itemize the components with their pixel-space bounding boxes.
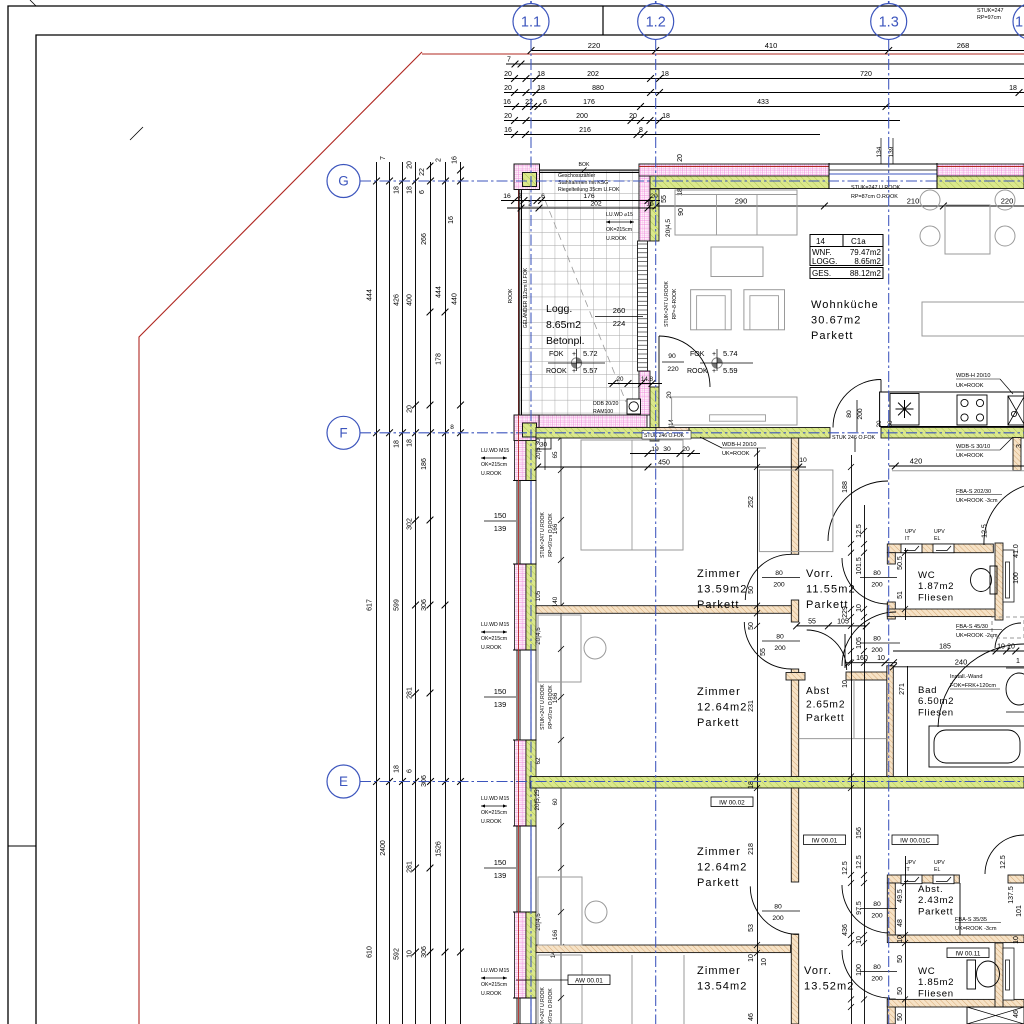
F wall green band west part (536, 428, 656, 439)
door vorr from wohnkueche right (828, 481, 888, 541)
svg-text:STUK=247: STUK=247 (977, 8, 1004, 14)
svg-text:20: 20 (677, 154, 684, 162)
svg-text:12.5: 12.5 (856, 855, 863, 869)
F wall tan block (656, 428, 689, 439)
svg-text:200: 200 (871, 647, 883, 654)
svg-text:20: 20 (650, 193, 658, 200)
WC shaft inset (1003, 550, 1014, 602)
svg-text:200: 200 (772, 915, 784, 922)
svg-text:5.74: 5.74 (723, 349, 738, 358)
svg-text:186: 186 (421, 458, 428, 470)
svg-text:Zimmer: Zimmer (697, 686, 741, 698)
north exterior wall insulation (639, 164, 829, 176)
armchair 2 (744, 290, 785, 330)
svg-text:OK=215cm: OK=215cm (481, 462, 507, 468)
svg-text:100: 100 (1013, 572, 1020, 584)
svg-text:10: 10 (897, 935, 904, 943)
svg-text:DDB 20/20: DDB 20/20 (593, 401, 618, 407)
svg-text:U.ROOK: U.ROOK (481, 471, 502, 477)
svg-text:Parkett: Parkett (806, 713, 845, 724)
svg-text:LU.WD ⌀15: LU.WD ⌀15 (606, 212, 633, 218)
svg-text:166: 166 (552, 692, 559, 703)
svg-text:55: 55 (760, 648, 767, 656)
svg-text:436: 436 (842, 924, 849, 936)
svg-text:53: 53 (748, 924, 755, 932)
svg-text:271: 271 (899, 683, 906, 695)
svg-text:220: 220 (588, 41, 601, 50)
svg-text:WDB-S 30/10: WDB-S 30/10 (956, 444, 990, 450)
svg-text:UK=ROOK -3cm: UK=ROOK -3cm (955, 926, 997, 932)
svg-text:46: 46 (748, 1013, 755, 1021)
stove (957, 395, 987, 425)
svg-text:11.55m2: 11.55m2 (806, 584, 856, 596)
svg-text:46: 46 (1013, 1010, 1020, 1018)
svg-text:156: 156 (856, 827, 863, 839)
wohnkueche door 80/200 rotated (856, 400, 858, 432)
svg-text:Vorr.: Vorr. (804, 965, 832, 977)
loggia east wall insulation upper (639, 164, 650, 241)
svg-text:Parkett: Parkett (811, 330, 854, 342)
svg-text:20: 20 (876, 420, 883, 428)
svg-text:13.52m2: 13.52m2 (804, 981, 855, 993)
svg-text:139: 139 (494, 871, 507, 880)
svg-text:55: 55 (661, 195, 668, 203)
svg-text:U.ROOK: U.ROOK (606, 236, 627, 242)
svg-text:8.65m2: 8.65m2 (854, 257, 881, 266)
left dimension chain columns (376, 162, 378, 1024)
svg-text:200: 200 (857, 408, 864, 420)
svg-text:14.8: 14.8 (641, 376, 654, 383)
svg-text:200: 200 (774, 645, 786, 652)
loggia dim rows (501, 200, 660, 202)
svg-text:6: 6 (541, 193, 545, 200)
svg-text:592: 592 (394, 948, 401, 960)
svg-text:444: 444 (436, 286, 443, 298)
svg-text:18: 18 (537, 85, 545, 92)
bathtub (929, 726, 1024, 767)
washbasin bad (1006, 673, 1024, 705)
svg-text:UPV: UPV (905, 529, 916, 535)
svg-text:F: F (339, 426, 347, 441)
svg-text:OK=215cm: OK=215cm (481, 636, 507, 642)
svg-text:12.5: 12.5 (842, 861, 849, 875)
svg-text:RP=97cm O.ROOK: RP=97cm O.ROOK (548, 988, 554, 1024)
svg-text:Parkett: Parkett (918, 906, 953, 917)
svg-text:IW 00.11: IW 00.11 (955, 950, 981, 957)
door zimmer1 (745, 554, 791, 600)
loggia tiled floor (520, 171, 639, 424)
svg-text:20: 20 (682, 446, 690, 453)
title strip divider (602, 6, 604, 35)
F wall green band east part (881, 428, 1024, 439)
svg-text:Betonpl.: Betonpl. (546, 335, 585, 347)
svg-text:50: 50 (748, 586, 755, 594)
svg-text:150: 150 (494, 687, 507, 696)
loggia east wall green strip lower (650, 387, 659, 441)
svg-text:GES.: GES. (812, 269, 831, 278)
svg-text:RP=87cm O.ROOK: RP=87cm O.ROOK (851, 194, 898, 200)
svg-text:268: 268 (957, 41, 970, 50)
svg-text:2.43m2: 2.43m2 (918, 895, 954, 906)
door right unit above abst2 (985, 835, 1024, 874)
svg-text:290: 290 (735, 197, 748, 206)
svg-text:GELÄNDER 112cm U.FOK: GELÄNDER 112cm U.FOK (522, 267, 529, 328)
svg-text:FBA-S 35/35: FBA-S 35/35 (955, 917, 987, 923)
svg-text:10: 10 (407, 950, 414, 958)
svg-text:178: 178 (436, 353, 443, 365)
svg-text:LU.WD M15: LU.WD M15 (481, 968, 509, 974)
svg-text:22: 22 (525, 99, 533, 106)
svg-text:10: 10 (997, 644, 1005, 651)
svg-text:50: 50 (748, 622, 755, 630)
area table (810, 235, 883, 247)
svg-text:6: 6 (407, 769, 414, 773)
svg-text:200: 200 (871, 913, 883, 920)
svg-text:166: 166 (552, 929, 559, 940)
svg-text:88.12m2: 88.12m2 (850, 269, 882, 278)
row 19.30/20 (630, 453, 700, 455)
svg-text:Abst: Abst (806, 686, 830, 697)
fold mark (8, 845, 36, 847)
svg-text:Zimmer: Zimmer (697, 965, 741, 977)
svg-text:80: 80 (776, 634, 784, 641)
svg-text:10: 10 (799, 457, 807, 464)
svg-text:1: 1 (1015, 15, 1023, 31)
svg-text:16: 16 (452, 156, 459, 164)
svg-text:WNF.: WNF. (812, 248, 832, 257)
svg-text:EL: EL (934, 867, 940, 873)
svg-text:200: 200 (576, 113, 588, 120)
svg-text:306: 306 (421, 946, 428, 958)
svg-text:18: 18 (407, 186, 414, 194)
svg-text:2400: 2400 (380, 840, 387, 856)
svg-text:20: 20 (407, 161, 414, 169)
svg-text:U.ROOK: U.ROOK (481, 991, 502, 997)
loggia west railing (518, 164, 520, 1024)
loggia SW corner column (514, 415, 540, 441)
svg-text:400: 400 (407, 294, 414, 306)
svg-text:150: 150 (494, 858, 507, 867)
svg-text:1526: 1526 (436, 841, 443, 857)
svg-text:139: 139 (494, 524, 507, 533)
svg-text:1.3: 1.3 (879, 15, 899, 31)
svg-text:10: 10 (761, 958, 768, 966)
svg-text:90: 90 (678, 208, 685, 216)
svg-text:EL: EL (934, 536, 940, 542)
svg-text:ROOK: ROOK (546, 368, 567, 375)
svg-text:20: 20 (504, 113, 512, 120)
svg-text:80: 80 (873, 901, 881, 908)
svg-text:166: 166 (552, 523, 559, 534)
svg-text:STUK 246 O.FOK: STUK 246 O.FOK (644, 433, 685, 439)
svg-text:6: 6 (419, 190, 426, 194)
svg-text:220: 220 (667, 366, 679, 373)
svg-text:Bad: Bad (918, 685, 937, 696)
row 420 (889, 465, 1024, 467)
svg-text:12.5: 12.5 (982, 524, 989, 538)
svg-text:ROOK: ROOK (687, 368, 708, 375)
svg-text:50.5: 50.5 (897, 556, 904, 570)
svg-text:FOK: FOK (549, 351, 564, 358)
svg-text:1.85m2: 1.85m2 (918, 977, 954, 988)
loggia drain (571, 358, 581, 368)
svg-text:50: 50 (897, 987, 904, 995)
svg-text:STUK=247 U.ROOK: STUK=247 U.ROOK (540, 986, 546, 1024)
svg-text:Wohnküche: Wohnküche (811, 299, 879, 311)
svg-text:OK=215cm: OK=215cm (481, 982, 507, 988)
svg-text:Parkett: Parkett (697, 877, 740, 889)
svg-text:FBA-S 202/30: FBA-S 202/30 (956, 489, 991, 495)
svg-text:220: 220 (1001, 197, 1014, 206)
svg-text:UK=ROOK: UK=ROOK (722, 451, 750, 457)
svg-text:STUK=247 U.ROOK: STUK=247 U.ROOK (851, 185, 901, 191)
svg-text:50: 50 (897, 1013, 904, 1021)
svg-text:STUK 246 O.FOK: STUK 246 O.FOK (832, 435, 876, 441)
west window 4 (513, 998, 537, 1024)
svg-text:60: 60 (552, 798, 559, 806)
svg-text:Parkett: Parkett (697, 717, 740, 729)
interior vertical chain x=864 (864, 505, 866, 1024)
svg-text:Abst.: Abst. (918, 884, 943, 895)
svg-text:Zimmer: Zimmer (697, 846, 741, 858)
svg-text:16: 16 (448, 216, 455, 224)
svg-text:610: 610 (367, 946, 374, 958)
svg-text:62: 62 (535, 757, 542, 765)
svg-text:30: 30 (663, 446, 671, 453)
toilet wc1 (990, 566, 997, 594)
svg-text:1: 1 (1016, 658, 1020, 665)
svg-text:444: 444 (367, 289, 374, 301)
E party wall green band (530, 777, 1024, 789)
svg-text:RP=-8-ROOK: RP=-8-ROOK (672, 288, 678, 319)
grid axis 1.4 partial (1013, 4, 1024, 40)
svg-text:224: 224 (613, 319, 626, 328)
svg-text:7: 7 (380, 156, 387, 160)
svg-text:Fliesen: Fliesen (918, 988, 954, 999)
UPV boxes wc2 (901, 875, 922, 884)
svg-text:18: 18 (1009, 85, 1017, 92)
svg-text:18: 18 (661, 71, 669, 78)
svg-text:18: 18 (537, 71, 545, 78)
svg-text:7: 7 (507, 57, 511, 64)
svg-text:80: 80 (846, 410, 853, 418)
abst shelf (853, 680, 855, 738)
loggia north railing (539, 169, 639, 171)
svg-text:1.87m2: 1.87m2 (918, 581, 954, 592)
svg-text:19: 19 (651, 446, 659, 453)
west window 1 (513, 481, 537, 564)
svg-text:UPV: UPV (934, 529, 945, 535)
svg-text:281: 281 (407, 687, 414, 699)
chain x=907 bad (907, 666, 909, 776)
svg-text:WDB-H 20/10: WDB-H 20/10 (956, 373, 991, 379)
svg-text:65: 65 (552, 451, 559, 459)
wall id boxes (711, 797, 753, 807)
svg-text:18: 18 (394, 186, 401, 194)
svg-text:U.ROOK: U.ROOK (481, 819, 502, 825)
90/220 door dim (662, 361, 684, 363)
svg-text:440: 440 (452, 293, 459, 305)
svg-text:80: 80 (873, 570, 881, 577)
svg-text:ROOK: ROOK (508, 288, 514, 303)
svg-text:IW 00.01: IW 00.01 (812, 837, 838, 844)
svg-text:229: 229 (842, 606, 849, 618)
svg-text:176: 176 (583, 193, 595, 200)
svg-text:20|4,5: 20|4,5 (665, 219, 672, 237)
north window (829, 164, 937, 190)
svg-text:97.5: 97.5 (856, 901, 863, 915)
door zimmer2 (744, 622, 791, 669)
svg-text:1.1: 1.1 (521, 15, 541, 31)
svg-text:55: 55 (808, 618, 816, 625)
shower dashed (992, 617, 1024, 638)
svg-text:Geschosszähler: Geschosszähler (558, 173, 595, 179)
loggia 260/224 dim (595, 316, 643, 318)
svg-text:137.5: 137.5 (1008, 886, 1015, 904)
svg-text:LU.WD M15: LU.WD M15 (481, 448, 509, 454)
svg-text:20|5,30: 20|5,30 (535, 438, 542, 459)
svg-text:12.5: 12.5 (856, 524, 863, 538)
svg-text:6.50m2: 6.50m2 (918, 696, 954, 707)
door loggia (659, 336, 710, 387)
svg-text:10: 10 (856, 936, 863, 944)
svg-text:10: 10 (877, 655, 885, 662)
bed zimmer2 (538, 615, 581, 682)
svg-text:20: 20 (504, 71, 512, 78)
door wc (842, 558, 888, 604)
wardrobe vorr (759, 470, 833, 552)
svg-text:105: 105 (535, 590, 542, 601)
svg-text:5.57: 5.57 (583, 366, 598, 375)
axis overlay lines (530, 40, 532, 1024)
F wall green band mid part (689, 428, 830, 439)
grid axis E (327, 765, 360, 798)
interior vertical chain x=757 (757, 448, 759, 1024)
svg-text:41.0: 41.0 (1013, 544, 1020, 558)
svg-text:8: 8 (450, 424, 454, 431)
svg-text:100: 100 (856, 964, 863, 976)
red boundary along top (422, 53, 1024, 55)
svg-text:5.59: 5.59 (723, 366, 738, 375)
svg-text:10: 10 (748, 954, 755, 962)
svg-text:16: 16 (503, 193, 511, 200)
svg-text:RP=97cm: RP=97cm (977, 15, 1001, 21)
svg-text:426: 426 (394, 294, 401, 306)
svg-text:WDB-H 20/10: WDB-H 20/10 (722, 442, 757, 448)
svg-text:LOGG.: LOGG. (812, 257, 837, 266)
svg-text:281: 281 (407, 861, 414, 873)
svg-text:18: 18 (748, 781, 755, 789)
svg-text:176: 176 (583, 99, 595, 106)
door right unit lower (938, 644, 1024, 727)
bed zimmer2b (538, 877, 582, 945)
svg-text:Parkett: Parkett (697, 599, 740, 611)
UPV boxes wc1 (901, 544, 922, 553)
svg-text:20: 20 (407, 405, 414, 413)
svg-text:IW 00.01C: IW 00.01C (900, 837, 931, 844)
svg-text:LU.WD M15: LU.WD M15 (481, 796, 509, 802)
door zimmer2b lower unit (750, 886, 798, 934)
svg-text:Vorr.: Vorr. (806, 568, 834, 580)
svg-text:450: 450 (658, 460, 670, 467)
dining table (945, 205, 990, 254)
svg-text:13.59m2: 13.59m2 (697, 584, 748, 596)
svg-text:RP=97cm O.ROOK: RP=97cm O.ROOK (548, 685, 554, 729)
svg-text:G: G (338, 174, 349, 189)
grid axis 1.1 (513, 4, 549, 40)
loggia east wall green strip upper (650, 189, 659, 241)
svg-text:20: 20 (1007, 644, 1015, 651)
svg-text:260: 260 (613, 306, 626, 315)
svg-text:18: 18 (407, 439, 414, 447)
grid axis G (327, 165, 360, 198)
svg-text:22: 22 (419, 168, 426, 176)
svg-text:FOK=FRK+120cm: FOK=FRK+120cm (950, 683, 996, 689)
svg-text:202: 202 (590, 201, 602, 208)
svg-text:231: 231 (748, 700, 755, 712)
svg-text:FOK: FOK (690, 351, 705, 358)
sink right unit (1008, 396, 1024, 425)
coffee table (711, 247, 763, 277)
svg-text:410: 410 (765, 41, 778, 50)
wardrobe zimmer3 (538, 955, 582, 1024)
svg-text:306: 306 (421, 775, 428, 787)
sideboard (672, 397, 797, 425)
svg-text:8: 8 (639, 127, 643, 134)
svg-text:80: 80 (775, 570, 783, 577)
bed zimmer1 (581, 440, 683, 550)
svg-text:13.54m2: 13.54m2 (697, 981, 748, 993)
svg-text:12.5: 12.5 (1000, 855, 1007, 869)
svg-text:3: 3 (1016, 444, 1023, 448)
svg-text:UPV: UPV (905, 860, 916, 866)
svg-text:IW 00.02: IW 00.02 (719, 799, 745, 806)
svg-text:Logg.: Logg. (546, 303, 572, 315)
toilet wc2 (967, 960, 976, 989)
interior walls (791, 438, 798, 554)
svg-text:18: 18 (662, 113, 670, 120)
svg-text:AW 00.01: AW 00.01 (575, 977, 603, 984)
door wohnkueche entry (833, 380, 881, 428)
svg-text:420: 420 (910, 457, 923, 466)
door abst2 (842, 885, 890, 933)
svg-text:14: 14 (816, 237, 825, 246)
svg-text:80: 80 (887, 420, 894, 428)
svg-text:79.47m2: 79.47m2 (850, 248, 882, 257)
svg-text:FBA-S 45/30: FBA-S 45/30 (956, 624, 988, 630)
svg-text:720: 720 (860, 71, 872, 78)
svg-text:10: 10 (842, 680, 849, 688)
svg-text:+: + (712, 351, 716, 358)
svg-text:252: 252 (748, 496, 755, 508)
svg-text:105: 105 (837, 618, 849, 625)
svg-text:880: 880 (592, 85, 604, 92)
svg-text:UK=ROOK: UK=ROOK (956, 453, 984, 459)
door abst (807, 630, 847, 670)
svg-text:18: 18 (394, 765, 401, 773)
svg-text:433: 433 (757, 99, 769, 106)
north wall green strip (650, 176, 829, 189)
armchair 1 (691, 290, 732, 330)
svg-text:51: 51 (897, 591, 904, 599)
north wall red line (639, 166, 1024, 168)
loggia 20/14.8 dim (608, 383, 662, 385)
row 450 (538, 466, 806, 468)
svg-text:U.ROOK: U.ROOK (481, 645, 502, 651)
svg-text:2: 2 (518, 193, 522, 200)
svg-text:6: 6 (543, 99, 547, 106)
svg-text:188: 188 (842, 481, 849, 493)
